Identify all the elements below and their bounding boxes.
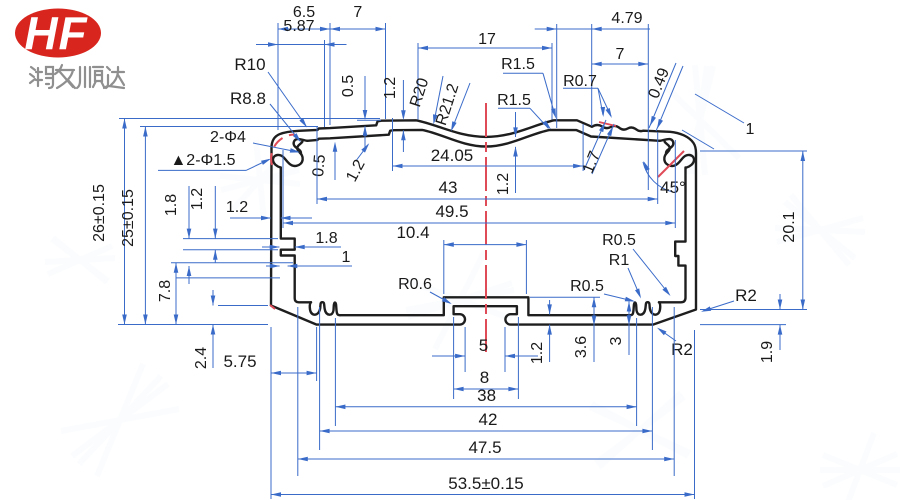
red centerline (485, 103, 487, 352)
svg-text:42: 42 (479, 410, 498, 429)
svg-text:0.49: 0.49 (646, 66, 673, 101)
profile outer contour (271, 120, 696, 324)
svg-text:R1.5: R1.5 (501, 56, 535, 73)
slanted leader 1.2 cavity (357, 145, 369, 161)
dim 1.2 wall top (402, 80, 404, 115)
dim 24.05 (392, 118, 394, 171)
dim 1.2 center vertical (515, 112, 517, 137)
dim 0.5 cavity (334, 144, 336, 180)
svg-text:5.75: 5.75 (223, 352, 256, 371)
svg-text:10.4: 10.4 (396, 223, 429, 242)
dim 7 top-left (330, 28, 386, 30)
dim 53.5 (271, 494, 695, 496)
svg-text:R1.5: R1.5 (497, 92, 531, 109)
red 45 degree line top-right (658, 151, 684, 177)
screw port bottom-right (630, 302, 660, 315)
svg-text:17: 17 (478, 31, 496, 48)
dim 7 top-right (592, 63, 649, 65)
svg-text:R0.5: R0.5 (570, 278, 604, 295)
svg-text:7: 7 (616, 46, 625, 63)
dim 42 (320, 430, 653, 432)
bottom extension lines (464, 327, 466, 372)
dim 4.79 (557, 28, 592, 30)
dim 20.1 right (700, 150, 807, 152)
profile inner bottom with platform (340, 297, 630, 315)
svg-text:1.2: 1.2 (226, 199, 248, 216)
profile inner right wall with notches (659, 168, 686, 303)
dim 26 overall height (119, 118, 380, 120)
profile inner left wall with notches (281, 168, 311, 303)
svg-text:0.5: 0.5 (340, 75, 357, 97)
svg-text:R20: R20 (407, 76, 432, 109)
svg-text:0.5: 0.5 (310, 154, 329, 178)
svg-text:R0.5: R0.5 (602, 232, 636, 249)
svg-text:R8.8: R8.8 (230, 89, 266, 108)
svg-text:7: 7 (353, 4, 362, 21)
dim 2.4 (218, 305, 268, 307)
svg-text:1: 1 (746, 121, 755, 138)
svg-text:5: 5 (479, 336, 488, 355)
slanted dim 0.49 (649, 63, 676, 128)
svg-text:20.1: 20.1 (781, 211, 798, 242)
dim 45 degrees with arc (643, 162, 673, 192)
svg-text:R2: R2 (735, 286, 757, 305)
dim 5 slot (432, 355, 465, 357)
svg-text:1.2: 1.2 (343, 157, 368, 185)
logo chinese characters (drawn strokes) (30, 65, 124, 88)
extension lines top-left (277, 23, 279, 130)
dim 47.5 (298, 458, 674, 460)
svg-text:1.2: 1.2 (529, 342, 546, 364)
svg-text:47.5: 47.5 (468, 438, 501, 457)
dim 17 (418, 47, 552, 49)
dim 25 height (140, 126, 318, 128)
svg-text:2.4: 2.4 (193, 347, 210, 369)
svg-text:3: 3 (608, 336, 625, 345)
dim 1.2 left wall thickness (230, 217, 271, 219)
svg-text:R10: R10 (234, 55, 265, 74)
svg-text:2-Φ4: 2-Φ4 (210, 129, 246, 146)
dim 38 (335, 406, 636, 408)
dim 10.4 (443, 240, 445, 294)
logo red ellipse HF (15, 9, 101, 58)
svg-text:R0.6: R0.6 (398, 276, 432, 293)
svg-text:1.8: 1.8 (163, 194, 180, 216)
screw port bottom-left (310, 302, 340, 315)
svg-text:8: 8 (480, 368, 489, 387)
svg-text:49.5: 49.5 (435, 202, 468, 221)
svg-text:R1: R1 (609, 252, 630, 269)
svg-text:1.9: 1.9 (759, 341, 776, 363)
svg-text:7.8: 7.8 (157, 280, 174, 302)
svg-text:1.2: 1.2 (382, 77, 399, 99)
svg-text:45°: 45° (660, 178, 686, 197)
svg-text:38: 38 (477, 386, 496, 405)
bottom middle dims 1.2 3.6 3 (549, 300, 551, 314)
svg-text:1: 1 (342, 249, 351, 266)
dim 1 notch (266, 265, 280, 267)
svg-text:R0.7: R0.7 (563, 73, 597, 90)
svg-text:1.2: 1.2 (495, 173, 512, 195)
svg-text:25±0.15: 25±0.15 (120, 189, 137, 247)
dim 0.5 step (357, 119, 381, 121)
red tick bottom-left chamfer (270, 305, 275, 309)
dim 49.5 (282, 150, 284, 228)
svg-text:HF: HF (24, 7, 88, 59)
label 1 chamfer top-right (695, 94, 744, 123)
svg-text:1.2: 1.2 (189, 188, 206, 210)
svg-text:26±0.15: 26±0.15 (91, 184, 108, 242)
red arc top-left corner (271, 135, 294, 166)
svg-text:24.05: 24.05 (431, 146, 474, 165)
dim 43 (316, 127, 318, 204)
svg-text:53.5±0.15: 53.5±0.15 (448, 474, 524, 493)
dim 7.8 (171, 262, 293, 264)
dim 1.9 right (700, 324, 786, 326)
svg-text:43: 43 (439, 178, 458, 197)
red tangent tick at serrations (599, 122, 616, 126)
dim 6.5 (278, 28, 330, 30)
dim 1.8 rib (262, 246, 279, 248)
svg-text:5.87: 5.87 (283, 18, 314, 35)
left wall small dims 1.8 1.2 (183, 238, 278, 240)
slanted dim 1.7 (584, 120, 606, 170)
profile inner top wall (307, 130, 659, 147)
svg-text:4.79: 4.79 (611, 10, 642, 27)
dim 5.75 (316, 327, 318, 381)
dim 8 slot (454, 388, 519, 390)
screw port top-left (273, 142, 303, 168)
screw port top-right (664, 142, 694, 168)
svg-text:3.6: 3.6 (573, 336, 590, 358)
dim 5.87 (278, 44, 325, 46)
svg-text:▲2-Φ1.5: ▲2-Φ1.5 (170, 152, 235, 169)
svg-text:1.8: 1.8 (315, 230, 337, 247)
